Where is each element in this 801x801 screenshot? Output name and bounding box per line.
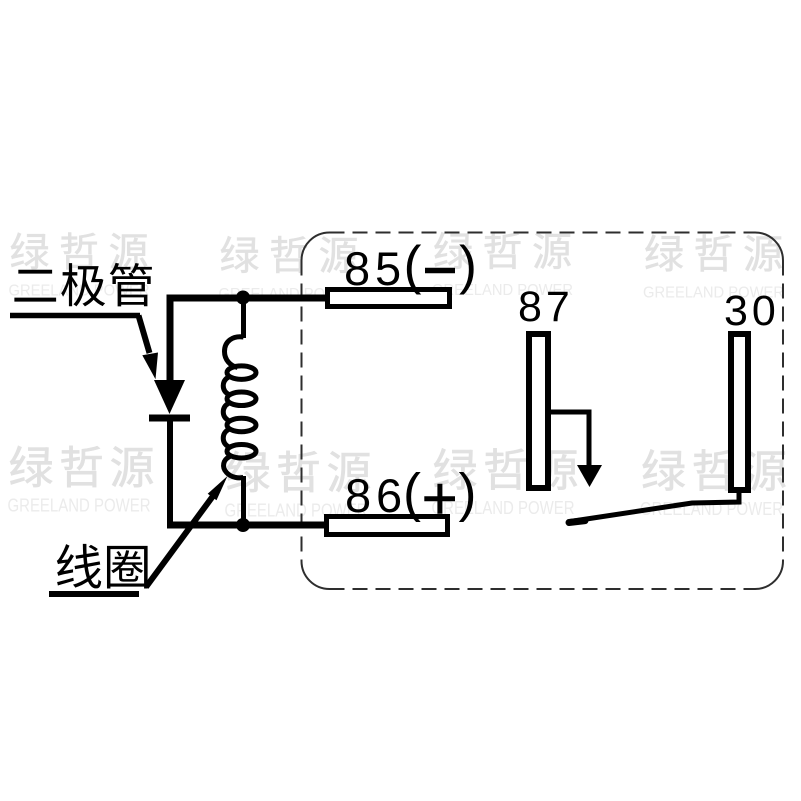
svg-text:30: 30 bbox=[724, 287, 780, 335]
label 线圈 (coil) bbox=[57, 544, 148, 589]
svg-text:86: 86 bbox=[345, 469, 407, 522]
svg-text:): ) bbox=[459, 236, 477, 296]
svg-text:): ) bbox=[459, 463, 477, 523]
label 86(+) bbox=[345, 463, 476, 523]
terminal 30 pin bar bbox=[731, 334, 748, 490]
terminal 87 pin bar bbox=[529, 334, 548, 488]
inductor coil L1 (线圈) bbox=[223, 291, 256, 528]
svg-text:(: ( bbox=[403, 463, 421, 523]
diode D1 (二极管) bbox=[149, 380, 190, 418]
node: bottom junction bbox=[236, 518, 250, 532]
relay body dashed outline bbox=[302, 233, 784, 590]
leader line and arrow for 二极管 bbox=[10, 316, 158, 380]
terminal 85 pin box bbox=[328, 290, 450, 307]
arrow from terminal 87 (normally-open contact) bbox=[551, 412, 602, 487]
svg-text:(: ( bbox=[404, 236, 422, 296]
svg-text:87: 87 bbox=[518, 283, 574, 331]
wire: diode cathode to bottom wire bbox=[167, 421, 173, 525]
node: top junction bbox=[236, 291, 250, 305]
svg-text:GREELAND POWER: GREELAND POWER bbox=[8, 495, 151, 516]
switch armature from terminal 30 bbox=[569, 490, 739, 523]
svg-text:85: 85 bbox=[344, 242, 406, 295]
wire: top (diode/coil top to terminal 85) bbox=[170, 298, 325, 380]
terminal 86 pin box bbox=[327, 517, 448, 535]
wire: bottom (to terminal 86) bbox=[167, 522, 324, 529]
label 87 bbox=[518, 283, 574, 331]
label 30 bbox=[724, 287, 780, 335]
watermark GREELAND POWER 绿哲源 tiles bbox=[8, 232, 786, 520]
label 二极管 (diode) bbox=[14, 263, 152, 306]
label 85(-) bbox=[344, 236, 477, 296]
leader line and arrow for 线圈 bbox=[49, 476, 228, 594]
